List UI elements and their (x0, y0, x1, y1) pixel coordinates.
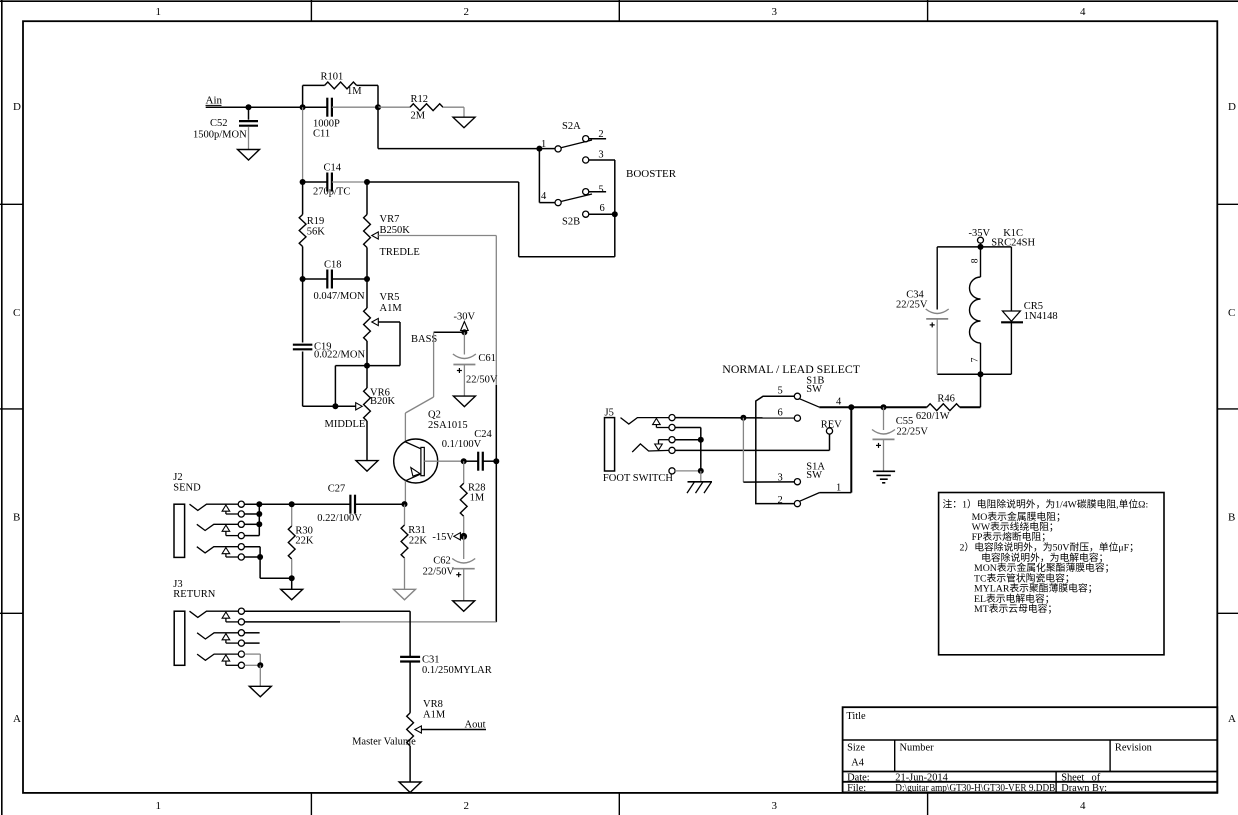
svg-text:A1M: A1M (380, 303, 403, 314)
wire C14 to S2 (367, 181, 519, 183)
svg-text:注：1）电阻除说明外，为1/4W碳膜电阻,单位Ω:: 注：1）电阻除说明外，为1/4W碳膜电阻,单位Ω: (943, 498, 1149, 511)
svg-text:B250K: B250K (380, 225, 411, 236)
svg-text:620/1W: 620/1W (916, 411, 950, 422)
wire R46 to relay (980, 374, 982, 407)
svg-text:VR5: VR5 (380, 292, 400, 303)
switch S2A (539, 121, 615, 163)
svg-text:C18: C18 (324, 260, 342, 271)
ground VR8 (399, 782, 421, 793)
junction C18 right (364, 276, 370, 282)
wire VR7 wiper to right rail (378, 235, 496, 237)
svg-text:C31: C31 (422, 654, 440, 665)
svg-text:7: 7 (970, 357, 980, 362)
junction -15V (460, 533, 467, 540)
svg-text:-15V: -15V (432, 532, 454, 543)
resistor R31 (401, 504, 427, 589)
resistor R101 (303, 72, 378, 108)
svg-text:J5: J5 (605, 407, 614, 418)
junction C14 right (364, 179, 370, 185)
power port -35V (969, 228, 991, 247)
svg-text:Sheet: Sheet (1061, 772, 1084, 783)
capacitor C24 (442, 429, 497, 471)
svg-text:SW: SW (806, 384, 822, 395)
wires J3 pins (245, 611, 497, 686)
ground R12 (453, 117, 475, 128)
svg-text:FOOT SWITCH: FOOT SWITCH (603, 473, 674, 484)
svg-text:A: A (13, 713, 21, 725)
svg-text:S2A: S2A (562, 121, 581, 132)
svg-text:Drawn By:: Drawn By: (1061, 783, 1107, 794)
notes box (939, 493, 1164, 655)
wire right rail (495, 236, 497, 386)
ground C61 (453, 396, 475, 407)
svg-text:22/25V: 22/25V (896, 299, 928, 310)
svg-text:C14: C14 (324, 163, 342, 174)
svg-text:4: 4 (1080, 6, 1086, 18)
svg-text:21-Jun-2014: 21-Jun-2014 (895, 772, 948, 783)
capacitor C11 (303, 98, 378, 140)
svg-text:RETURN: RETURN (173, 589, 215, 600)
svg-text:C61: C61 (478, 353, 496, 364)
svg-text:1: 1 (156, 6, 162, 18)
svg-text:A4: A4 (851, 758, 865, 769)
svg-text:Title: Title (846, 711, 866, 722)
svg-text:56K: 56K (307, 227, 326, 238)
resistor R46 (916, 394, 981, 422)
switch S2B (539, 149, 615, 228)
wire S2 pin3/pin6 to C14 net (614, 160, 616, 257)
svg-text:BOOSTER: BOOSTER (626, 168, 677, 180)
svg-text:C: C (1228, 307, 1235, 319)
svg-text:D: D (13, 101, 21, 113)
svg-text:2: 2 (464, 6, 470, 18)
junction C55 (881, 404, 887, 410)
wire to booster switch (377, 107, 379, 148)
wire Q2 base to C24 (424, 460, 463, 462)
node REV (821, 420, 842, 435)
junction C52 (246, 104, 252, 110)
svg-text:0.1/250MYLAR: 0.1/250MYLAR (422, 665, 492, 676)
svg-text:MYLAR表示聚酯薄膜电容；: MYLAR表示聚酯薄膜电容； (974, 582, 1098, 595)
svg-text:C62: C62 (433, 556, 451, 567)
capacitor C31 (400, 611, 492, 713)
ground J3 (249, 686, 271, 697)
svg-text:1M: 1M (347, 86, 362, 97)
svg-text:SW: SW (806, 470, 822, 481)
junction VR6 wiper (332, 403, 338, 409)
svg-text:2: 2 (778, 495, 783, 506)
svg-text:J3: J3 (173, 579, 182, 590)
wire VR5 bottom to VR6 wiper (335, 365, 367, 367)
svg-text:22K: 22K (295, 536, 314, 547)
earth ground C55 (873, 471, 895, 483)
ground VR6 (356, 461, 378, 472)
svg-text:4: 4 (541, 191, 547, 202)
svg-text:22/50V: 22/50V (423, 567, 455, 578)
svg-text:D:\guitar amp\GT30-H\GT30-VER: D:\guitar amp\GT30-H\GT30-VER 9.DDB (895, 783, 1055, 794)
svg-text:5: 5 (778, 385, 783, 396)
svg-text:File:: File: (847, 783, 866, 794)
title block (843, 707, 1218, 794)
ground C52 (238, 150, 260, 161)
svg-text:0.22/100V: 0.22/100V (317, 513, 362, 524)
junction S2 pin1 (536, 146, 542, 152)
svg-text:MIDDLE: MIDDLE (325, 419, 366, 430)
ground C62 (453, 601, 475, 612)
junction C14 left (300, 179, 306, 185)
svg-text:3: 3 (772, 6, 778, 18)
potentiometer VR7 TREDLE (364, 182, 420, 279)
svg-text:MT表示云母电容；: MT表示云母电容； (974, 602, 1057, 615)
svg-text:1500p/MON: 1500p/MON (193, 130, 247, 141)
svg-text:C52: C52 (210, 118, 228, 129)
switch S1B (756, 375, 842, 503)
capacitor C55 (872, 407, 928, 471)
wires J5 pins (675, 415, 829, 482)
junction R101 left (300, 104, 306, 110)
capacitor C52 (193, 107, 258, 149)
svg-text:D: D (1228, 101, 1236, 113)
svg-text:of: of (1092, 772, 1101, 783)
potentiometer VR8 Master Volume (352, 699, 486, 782)
resistor R12 (378, 94, 464, 121)
relay K1C SRC24SH coil (937, 228, 1035, 377)
junction base/C24/R28 (461, 458, 467, 464)
svg-text:1M: 1M (470, 493, 485, 504)
connector J2 SEND (173, 472, 244, 560)
svg-text:Revision: Revision (1115, 742, 1153, 753)
capacitor C34 (896, 247, 949, 374)
resistor R30 (288, 504, 314, 578)
svg-text:R19: R19 (307, 216, 325, 227)
junction C18 left (300, 276, 306, 282)
ground R30 (281, 589, 303, 600)
junction R30 top (289, 501, 295, 507)
resistor R28 (460, 461, 485, 536)
junction S2 pin6 (612, 211, 618, 217)
svg-text:C27: C27 (328, 484, 346, 495)
svg-text:MON表示金属化聚酯薄膜电容；: MON表示金属化聚酯薄膜电容； (974, 561, 1114, 574)
junction S1A pin1 (848, 404, 854, 410)
connector J5 FOOT SWITCH (603, 407, 675, 484)
svg-text:NORMAL / LEAD SELECT: NORMAL / LEAD SELECT (722, 362, 860, 376)
svg-text:Date:: Date: (847, 772, 870, 783)
svg-text:2M: 2M (411, 111, 426, 122)
svg-text:22/50V: 22/50V (466, 375, 498, 386)
wire -30V to Q2 collector (405, 332, 464, 442)
svg-text:B: B (1228, 512, 1235, 524)
wire S1B pin4 bus (819, 406, 926, 408)
node Aout (465, 720, 486, 731)
wire Q2 emitter (404, 481, 406, 504)
svg-text:1N4148: 1N4148 (1024, 311, 1058, 322)
potentiometer VR6 MIDDLE (325, 366, 396, 461)
svg-text:TREDLE: TREDLE (380, 247, 420, 258)
svg-text:2: 2 (464, 800, 470, 812)
capacitor C27 (292, 484, 405, 525)
svg-text:FP表示熔断电阻；: FP表示熔断电阻； (972, 530, 1051, 543)
chassis ground J5 (687, 471, 712, 493)
svg-text:Aout: Aout (465, 720, 486, 731)
svg-text:VR7: VR7 (380, 214, 400, 225)
svg-text:2）电容除说明外，为50V耐压，单位μF；: 2）电容除说明外，为50V耐压，单位μF； (960, 541, 1139, 554)
junction VR5 bottom (364, 363, 370, 369)
capacitor C18 (303, 260, 367, 303)
svg-text:Number: Number (900, 742, 935, 753)
svg-text:4: 4 (836, 397, 842, 408)
capacitor C61 (453, 332, 498, 396)
diode CR5 1N4148 (1001, 247, 1058, 374)
svg-text:270p/TC: 270p/TC (313, 187, 350, 198)
svg-text:2SA1015: 2SA1015 (428, 420, 468, 431)
svg-text:R101: R101 (321, 72, 344, 83)
potentiometer VR5 BASS (364, 279, 438, 366)
svg-text:22K: 22K (409, 535, 428, 546)
svg-text:VR8: VR8 (423, 699, 443, 710)
svg-text:3: 3 (772, 800, 778, 812)
svg-text:Master Valume: Master Valume (352, 737, 416, 748)
junction C11 right (375, 104, 381, 110)
ground R31 (394, 589, 416, 600)
svg-text:0.047/MON: 0.047/MON (314, 291, 365, 302)
svg-text:R46: R46 (937, 394, 955, 405)
svg-text:A1M: A1M (423, 710, 446, 721)
node Ain (206, 95, 223, 107)
junction R30 bottom (289, 575, 295, 581)
switch S1A (743, 407, 851, 507)
capacitor C14 (303, 163, 367, 198)
svg-text:1: 1 (156, 800, 162, 812)
wire left rail to C14 (302, 107, 304, 182)
wires J2 pins (244, 501, 291, 578)
svg-text:R12: R12 (411, 94, 429, 105)
svg-text:4: 4 (1080, 800, 1086, 812)
svg-text:J2: J2 (173, 472, 182, 483)
connector J3 RETURN (173, 579, 244, 669)
svg-text:22/25V: 22/25V (897, 427, 929, 438)
svg-text:SEND: SEND (173, 482, 201, 493)
svg-text:C11: C11 (313, 128, 330, 139)
transistor Q2 2SA1015 (394, 410, 468, 484)
wire Ain input (206, 106, 303, 108)
svg-text:6: 6 (778, 407, 783, 418)
capacitor C19 (293, 279, 366, 406)
svg-text:6: 6 (600, 203, 605, 214)
svg-text:0.1/100V: 0.1/100V (442, 439, 482, 450)
capacitor C62 (423, 536, 476, 601)
junction Q2 emitter node (402, 501, 408, 507)
svg-text:S2B: S2B (562, 217, 580, 228)
svg-text:Ain: Ain (206, 95, 223, 107)
svg-text:B20K: B20K (370, 396, 396, 407)
svg-text:8: 8 (970, 258, 980, 263)
svg-text:3: 3 (598, 150, 603, 161)
svg-text:C: C (13, 307, 20, 319)
power port -30V (454, 312, 476, 333)
power port -15V (432, 532, 463, 543)
junction -30V (461, 329, 467, 335)
svg-text:0.022/MON: 0.022/MON (314, 350, 365, 361)
resistor R19 (299, 182, 325, 279)
junction C24 right rail (493, 458, 499, 464)
svg-text:5: 5 (598, 184, 603, 195)
svg-text:Size: Size (847, 742, 865, 753)
svg-text:A: A (1228, 713, 1236, 725)
svg-text:B: B (13, 512, 20, 524)
